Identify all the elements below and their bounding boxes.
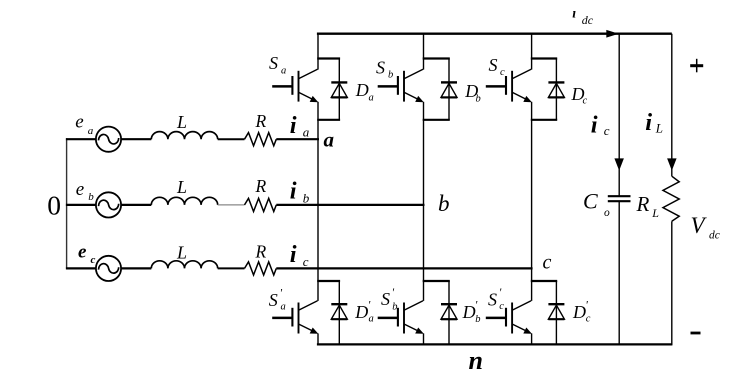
svg-text:c: c [91, 254, 96, 266]
wire: phase c inductor to resistor [218, 267, 245, 269]
wire: phase b inductor to resistor [218, 204, 245, 206]
wire: phase c source to inductor [121, 267, 151, 269]
svg-text:': ' [280, 286, 283, 300]
source e_b (AC) [96, 192, 121, 217]
diode D'_c (anti-parallel, lower) [548, 281, 590, 345]
svg-text:c: c [543, 252, 552, 274]
svg-text:i: i [591, 111, 598, 138]
node a [324, 128, 335, 152]
svg-text:c: c [586, 313, 591, 324]
label i_a (phase current) [290, 112, 310, 140]
svg-text:ı: ı [572, 7, 576, 22]
source e_c (AC) [96, 256, 121, 281]
wire: capacitor branch [618, 34, 620, 345]
svg-text:L: L [176, 177, 187, 197]
svg-text:L: L [176, 112, 187, 132]
diode D_c (anti-parallel, upper) [548, 59, 587, 120]
svg-text:a: a [369, 93, 374, 104]
svg-text:dc: dc [582, 13, 594, 27]
diode D'_a (anti-parallel, lower) [331, 281, 373, 345]
transistor S'_b (IGBT, lower) with wires [378, 281, 450, 345]
wire: phase b source to inductor [121, 204, 151, 206]
svg-text:c: c [500, 67, 505, 78]
svg-text:R: R [255, 111, 267, 131]
wire: phase a source to inductor [121, 138, 151, 140]
label i_L [645, 109, 663, 136]
svg-text:a: a [281, 66, 286, 77]
node b [438, 191, 450, 216]
resistor R (phase a) [245, 111, 277, 146]
wire: phase b resistor to node b [276, 204, 424, 206]
svg-text:b: b [392, 301, 397, 312]
svg-text:i: i [290, 241, 297, 268]
minus terminal [691, 332, 701, 335]
wire: top DC rail [317, 33, 672, 35]
svg-text:a: a [303, 125, 310, 140]
svg-text:D: D [572, 302, 586, 322]
svg-text:L: L [655, 121, 663, 136]
svg-text:o: o [604, 207, 610, 219]
svg-text:c: c [303, 254, 309, 269]
inductor L (phase b) [151, 177, 217, 205]
svg-text:i: i [290, 112, 297, 139]
svg-text:S: S [489, 55, 498, 75]
wire: phase a resistor to node a [276, 138, 319, 140]
wire: phase c bus to source [66, 267, 96, 269]
wire: leg c from upper cell through node c to lower cell [531, 120, 533, 281]
svg-text:L: L [176, 243, 187, 263]
plus terminal [690, 59, 703, 73]
svg-text:0: 0 [47, 189, 61, 220]
wire: phase b bus to source [66, 204, 96, 206]
label e_a [75, 111, 94, 137]
label i_c (phase current) [290, 241, 309, 269]
svg-text:c: c [604, 123, 610, 138]
svg-text:R: R [255, 242, 267, 262]
svg-text:b: b [88, 191, 94, 203]
svg-text:D: D [355, 80, 369, 100]
wire: phase c resistor to node c [276, 267, 532, 269]
svg-text:': ' [368, 298, 371, 312]
wire: phase a inductor to resistor [218, 138, 245, 140]
inductor L (phase c) [151, 243, 217, 269]
svg-text:i: i [645, 109, 652, 136]
capacitor C_o [583, 188, 631, 219]
resistor R (phase b) [245, 176, 277, 212]
label e_b [76, 179, 95, 203]
svg-text:': ' [585, 297, 588, 311]
svg-text:S: S [376, 58, 385, 78]
label i_b (phase current) [290, 178, 310, 206]
svg-text:b: b [475, 314, 480, 325]
svg-text:a: a [88, 125, 94, 137]
node 0 (neutral) [47, 189, 61, 220]
svg-text:b: b [476, 94, 481, 105]
svg-text:': ' [499, 285, 502, 299]
transistor S'_a (IGBT, lower) with wires [269, 281, 340, 345]
svg-text:a: a [369, 314, 374, 325]
svg-text:S: S [488, 290, 497, 310]
transistor S_b (IGBT, upper) with wires [376, 33, 450, 120]
svg-text:R: R [636, 192, 650, 216]
wire: bottom DC rail (node n rail) [317, 343, 673, 345]
svg-text:S: S [269, 53, 278, 73]
wire: leg a from upper cell through node a to lower cell [317, 120, 319, 281]
svg-text:b: b [438, 191, 450, 216]
transistor S_c (IGBT, upper) with wires [486, 33, 557, 120]
svg-text:e: e [76, 179, 84, 200]
svg-text:': ' [392, 285, 395, 299]
svg-text:S: S [269, 290, 278, 310]
resistor R_L (load) [636, 176, 680, 221]
diode D'_b (anti-parallel, lower) [441, 281, 481, 345]
wire: load branch [671, 34, 673, 345]
svg-text:S: S [381, 289, 390, 309]
svg-text:b: b [388, 70, 393, 81]
svg-text:e: e [78, 242, 87, 263]
node c [543, 252, 552, 274]
label i_dc [572, 7, 594, 28]
arrow i_L (load current) [667, 158, 677, 170]
source e_a (AC) [96, 127, 121, 152]
wire: phase a bus to source [66, 138, 96, 140]
svg-text:b: b [303, 190, 310, 205]
svg-text:dc: dc [709, 229, 720, 241]
svg-text:D: D [354, 302, 368, 322]
svg-text:e: e [75, 111, 83, 132]
svg-text:c: c [499, 301, 504, 312]
svg-text:a: a [324, 128, 335, 152]
resistor R (phase c) [245, 242, 277, 275]
arrow i_c (capacitor current) [614, 158, 624, 170]
diode D_a (anti-parallel, upper) [331, 59, 373, 120]
label e_c [78, 242, 96, 267]
wire: leg b from upper cell through node b to lower cell [423, 120, 425, 281]
label i_c [591, 111, 610, 138]
svg-text:C: C [583, 188, 598, 213]
svg-text:i: i [290, 178, 297, 205]
diode D_b (anti-parallel, upper) [441, 59, 481, 120]
transistor S_a (IGBT, upper) with wires [269, 33, 340, 120]
svg-text:n: n [469, 346, 483, 374]
svg-text:R: R [255, 176, 267, 196]
wire: neutral bus vertical [66, 138, 68, 268]
svg-text:c: c [583, 96, 588, 107]
label V_dc [691, 213, 720, 241]
transistor S'_c (IGBT, lower) with wires [486, 281, 557, 345]
arrow i_dc on top rail [606, 30, 619, 38]
svg-text:D: D [462, 302, 476, 322]
label n [469, 346, 483, 374]
inductor L (phase a) [151, 112, 217, 139]
svg-text:a: a [281, 301, 286, 312]
svg-text:': ' [475, 298, 478, 312]
svg-text:L: L [651, 206, 659, 220]
